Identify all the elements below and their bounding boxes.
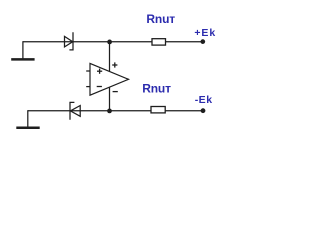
op-amp input pin + stub: [86, 70, 89, 72]
op-amp U1 triangle: [90, 63, 129, 95]
ground top-left: [22, 41, 24, 59]
wire op-amp positive supply: [109, 42, 111, 72]
op-amp supply minus sign: [113, 91, 118, 93]
resistor Rnut top: [152, 39, 166, 45]
node junction bottom: [107, 109, 112, 114]
terminal +Ek dot: [200, 39, 205, 44]
op-amp supply plus sign: [112, 64, 117, 66]
resistor Rnut bottom: [151, 107, 165, 113]
zener diode VD1: [65, 36, 73, 47]
svg-text:Rnuт: Rnuт: [142, 82, 171, 96]
wire bottom rail: [28, 110, 203, 112]
wire op-amp negative supply: [109, 87, 111, 110]
ground bottom-left: [27, 110, 29, 127]
zener diode VD2: [70, 106, 80, 117]
node junction top: [107, 40, 112, 45]
terminal -Ek dot: [201, 108, 206, 113]
svg-text:Rnuт: Rnuт: [146, 12, 175, 26]
svg-text:+Ek: +Ek: [194, 27, 216, 39]
op-amp plus input sign: [97, 70, 102, 72]
svg-text:-Ek: -Ek: [195, 94, 213, 106]
op-amp input pin - stub: [86, 86, 89, 88]
wire top rail: [23, 41, 203, 43]
op-amp minus input sign: [97, 86, 102, 88]
